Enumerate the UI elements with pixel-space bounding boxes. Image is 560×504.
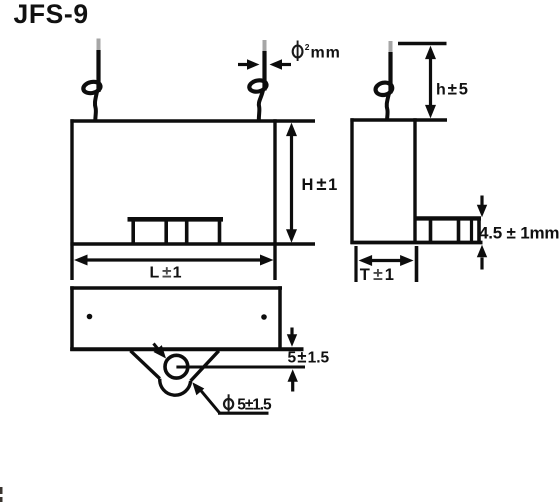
svg-text:H±1: H±1 xyxy=(302,173,338,194)
side view capacitor body xyxy=(350,44,482,245)
dimension 4.5 ± 1mm xyxy=(477,196,560,270)
dimension h±5 xyxy=(425,46,468,119)
terminal block (front view) xyxy=(128,219,224,244)
hole centre line xyxy=(176,366,305,369)
svg-text:2: 2 xyxy=(305,42,310,52)
dimension 5 ± 1.5 xyxy=(287,328,330,392)
leader arrow to hole xyxy=(154,344,167,359)
svg-text:4.5 ± 1mm: 4.5 ± 1mm xyxy=(479,224,559,243)
svg-text:mm: mm xyxy=(311,45,341,62)
mounting bracket xyxy=(131,351,219,395)
svg-text:JFS-9: JFS-9 xyxy=(14,0,89,29)
bottom view plate xyxy=(70,286,303,351)
terminal strip (side view) xyxy=(415,217,481,241)
mounting hole dot right xyxy=(261,314,267,320)
dimension H±1 xyxy=(286,123,337,243)
lead wire left (front view) xyxy=(82,39,101,122)
label phi 5±1.5 with leader xyxy=(192,382,272,413)
lead wire right (front view) xyxy=(248,40,267,121)
svg-text:T±1: T±1 xyxy=(360,264,394,284)
wire diameter arrows xyxy=(238,59,291,69)
scan artifact left edge xyxy=(0,487,3,494)
mounting hole dot left xyxy=(87,314,93,320)
svg-text:L±1: L±1 xyxy=(150,263,182,282)
front view capacitor body xyxy=(70,119,315,280)
lead wire (side view) xyxy=(374,41,393,121)
svg-text:5±1.5: 5±1.5 xyxy=(237,397,272,414)
label phi 2 mm xyxy=(293,41,341,62)
dimension T±1 xyxy=(356,246,417,284)
dimension L±1 xyxy=(74,255,274,282)
bracket hole circle xyxy=(165,355,188,378)
svg-text:5±1.5: 5±1.5 xyxy=(288,349,330,367)
svg-text:h±5: h±5 xyxy=(436,80,468,99)
